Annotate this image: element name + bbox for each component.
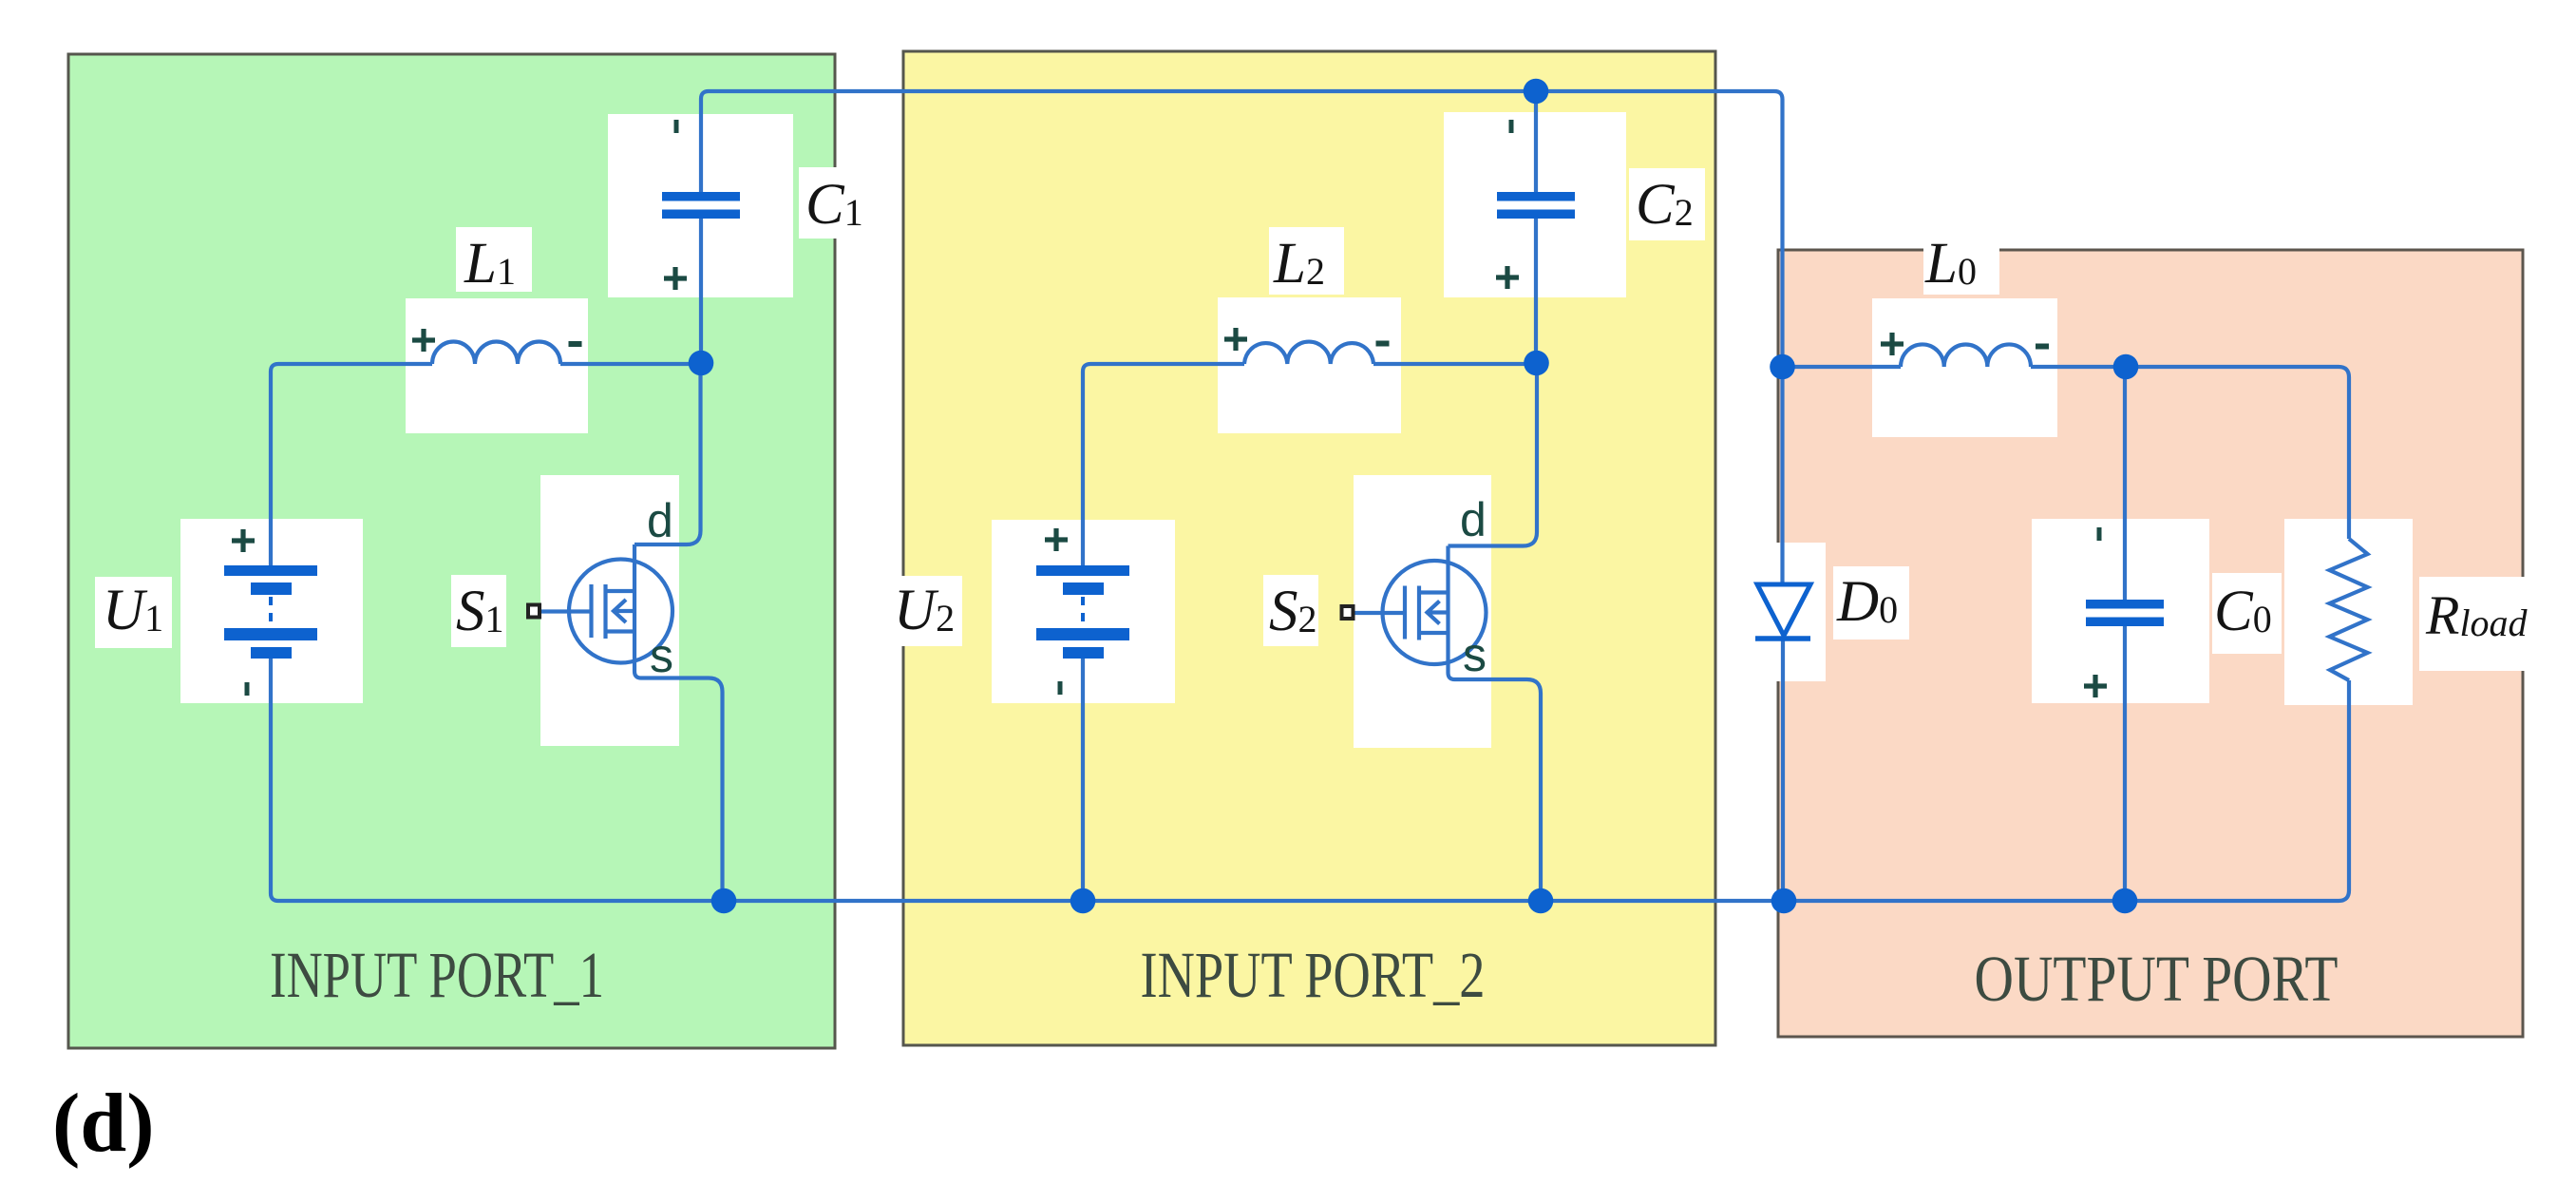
wire C2 top lead	[1534, 91, 1538, 192]
plus mark L0	[1881, 333, 1904, 355]
capacitor C2	[1497, 192, 1575, 219]
battery U1 backbox	[180, 519, 363, 703]
inductor L0 backbox	[1872, 298, 2057, 437]
plus mark C1	[664, 267, 687, 290]
node L0 right junction	[2113, 354, 2139, 380]
svg-text:(d): (d)	[52, 1078, 155, 1170]
inductor L1 backbox	[406, 298, 588, 433]
wire bottom bus	[271, 659, 2349, 901]
battery U1	[224, 565, 317, 659]
wire top bus from C1 over C2 down to output node	[701, 91, 1783, 367]
node U2 bus junction	[1070, 888, 1096, 914]
C2 label backbox	[1629, 168, 1705, 240]
wire output node to L0	[1783, 365, 1902, 369]
capacitor C2 backbox	[1444, 112, 1626, 297]
transistor S1 backbox	[540, 475, 679, 746]
INPUT PORT_2 yellow box	[903, 51, 1715, 1045]
svg-text:d: d	[1460, 493, 1487, 546]
wire C1 bottom lead to node A	[699, 219, 703, 363]
L2 label backbox	[1269, 227, 1344, 295]
node L0 left junction	[1770, 354, 1795, 380]
wire C2 bottom lead to node B	[1534, 219, 1538, 363]
L1 label backbox	[456, 227, 532, 292]
wire L2 to node B	[1373, 362, 1536, 366]
capacitor C1 backbox	[608, 114, 793, 297]
node C0 bus junction	[2112, 888, 2138, 914]
node S2 source bus junction	[1528, 888, 1554, 914]
wire C0 top lead	[2123, 367, 2127, 600]
minus tick U2	[1058, 681, 1063, 695]
C1 label backbox	[799, 167, 858, 239]
inductor L0	[1901, 344, 2031, 367]
wire U2 negative to bus	[1081, 659, 1085, 901]
D0 label backbox	[1833, 566, 1909, 640]
plus mark U2	[1045, 528, 1068, 551]
U1 label backbox	[95, 577, 172, 648]
wire C0 bottom lead to bus	[2123, 625, 2127, 901]
Rload label backbox	[2419, 577, 2527, 671]
OUTPUT PORT pink box	[1778, 250, 2523, 1037]
diode D0	[1755, 584, 1810, 639]
S1 label backbox	[451, 575, 506, 647]
minus tick C2	[1509, 120, 1514, 133]
wire U2 positive to L2	[1083, 364, 1244, 565]
node D0 bus junction	[1771, 888, 1797, 914]
plus mark C2	[1496, 266, 1519, 289]
battery U2 backbox	[992, 520, 1175, 703]
node S1 source bus junction	[711, 888, 737, 914]
node B junction L2 C2 S2	[1524, 351, 1549, 376]
svg-text:d: d	[647, 494, 673, 547]
svg-text:INPUT PORT_2: INPUT PORT_2	[1141, 939, 1486, 1011]
C0 label backbox	[2212, 573, 2282, 654]
wire L1 to node A	[560, 362, 701, 366]
U2 label backbox	[900, 576, 962, 646]
transistor S2 backbox	[1354, 475, 1491, 748]
inductor L2 backbox	[1218, 297, 1401, 433]
plus mark U1	[232, 529, 255, 552]
wire U1 positive to L1	[271, 364, 432, 565]
minus mark L2	[1376, 341, 1390, 347]
transistor S2	[1354, 372, 1542, 901]
capacitor C0	[2086, 600, 2164, 626]
minus mark L1	[569, 341, 582, 347]
INPUT PORT_1 green box	[68, 54, 835, 1048]
minus tick C1	[674, 120, 679, 133]
plus mark L2	[1224, 328, 1247, 351]
svg-text:OUTPUT PORT: OUTPUT PORT	[1975, 943, 2339, 1015]
diode D0 backbox	[1776, 543, 1826, 681]
plus mark C0	[2084, 675, 2107, 697]
node C2 top junction	[1524, 79, 1549, 105]
svg-text:s: s	[650, 629, 673, 682]
inductor L1	[432, 342, 560, 365]
capacitor C1	[662, 192, 740, 219]
resistor Rload backbox	[2284, 519, 2413, 705]
node A junction L1 C1 S1	[689, 351, 714, 376]
resistor Rload	[2330, 539, 2368, 680]
S2 label backbox	[1263, 575, 1318, 646]
wire D0 cathode to bus	[1781, 639, 1785, 901]
plus mark L1	[412, 329, 435, 352]
L0 label backbox	[1923, 228, 1999, 295]
svg-text:s: s	[1463, 628, 1487, 681]
wire L0 to C0 node and Rload top	[2031, 367, 2349, 539]
inductor L2	[1244, 342, 1373, 364]
minus tick U1	[245, 682, 250, 696]
minus tick C0	[2097, 527, 2102, 541]
transistor S1	[540, 372, 723, 901]
gate terminal square S1	[528, 605, 540, 618]
svg-text:INPUT PORT_1: INPUT PORT_1	[270, 939, 604, 1011]
minus mark L0	[2036, 344, 2049, 350]
capacitor C0 backbox	[2032, 519, 2209, 703]
battery U2	[1036, 565, 1129, 659]
gate terminal square S2	[1342, 606, 1354, 619]
wire D0 anode	[1780, 367, 1784, 584]
